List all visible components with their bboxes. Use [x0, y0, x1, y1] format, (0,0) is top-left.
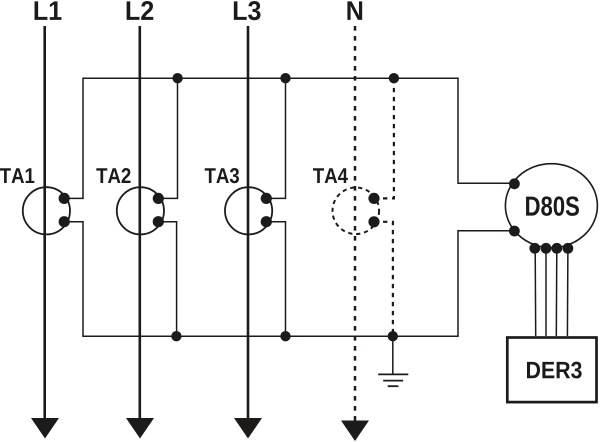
node TA4 upper terminal dot — [368, 193, 379, 204]
wire TA3 lower terminal to bottom bus — [266, 222, 285, 337]
node D80S upper input dot — [509, 178, 520, 189]
wire D80S output 1 to DER3 — [534, 248, 537, 336]
transformer TA1 — [23, 187, 70, 234]
node L1 label — [35, 1, 62, 20]
node N label — [347, 1, 362, 20]
wire L3 arrow head — [234, 418, 262, 439]
wire L1 phase line — [43, 26, 46, 421]
node junction dot top bus at TA3 — [280, 73, 290, 83]
wire N neutral dashed line — [354, 26, 357, 423]
node D80S output dot 4 — [563, 243, 574, 254]
wire D80S output 3 to DER3 — [555, 248, 558, 336]
wire ground stem — [392, 336, 394, 374]
transformer TA2 label — [96, 168, 130, 183]
relay DER3 box — [507, 338, 596, 403]
node TA2 upper terminal dot — [153, 193, 164, 204]
node D80S output dot 2 — [541, 243, 552, 254]
node TA2 lower terminal dot — [153, 216, 164, 227]
toroid D80S label — [526, 196, 579, 216]
wire D80S output 4 to DER3 — [566, 248, 569, 336]
wire L2 phase line — [139, 26, 142, 421]
node TA3 upper terminal dot — [261, 193, 272, 204]
node L2 label — [127, 1, 154, 20]
node D80S lower input dot — [509, 226, 520, 237]
wire L1 arrow head — [31, 418, 59, 439]
wire L3 phase line — [247, 26, 250, 421]
wire N arrow head — [341, 421, 369, 442]
node junction dot bottom bus at TA2 — [171, 331, 181, 341]
node TA1 lower terminal dot — [59, 216, 70, 227]
node junction dot top bus at TA2 — [172, 73, 182, 83]
node D80S output dot 3 — [551, 243, 562, 254]
node TA1 upper terminal dot — [59, 193, 70, 204]
transformer TA4 (dashed, optional) — [333, 188, 380, 235]
relay DER3 label — [527, 362, 582, 379]
wire TA2 upper terminal to top bus — [158, 78, 177, 198]
node TA3 lower terminal dot — [261, 216, 272, 227]
transformer TA3 label — [205, 168, 239, 183]
wire bottom bus from TA1 lower terminal to D80S lower terminal — [64, 222, 514, 337]
wire L2 arrow head — [126, 418, 154, 439]
node junction dot bottom bus at TA4 / ground — [388, 331, 398, 341]
transformer TA4 label — [313, 168, 348, 183]
wire TA3 upper terminal to top bus — [266, 78, 285, 198]
transformer TA1 label — [0, 168, 34, 183]
wire top bus from TA1 upper terminal to D80S upper terminal — [64, 78, 514, 198]
node TA4 lower terminal dot — [368, 216, 379, 227]
node D80S output dot 1 — [529, 243, 540, 254]
wire TA4 lower terminal to bottom bus (dashed) — [374, 222, 393, 336]
wire D80S output 2 to DER3 — [545, 248, 547, 336]
node junction dot bottom bus at TA3 — [280, 331, 290, 341]
transformer TA2 — [117, 187, 164, 234]
wire TA4 upper terminal to top bus (dashed) — [374, 78, 394, 198]
toroid D80S — [505, 164, 597, 248]
node junction dot top bus at TA4 — [389, 73, 399, 83]
transformer TA3 — [225, 187, 272, 234]
node L3 label — [234, 1, 261, 20]
wire TA2 lower terminal to bottom bus — [158, 222, 176, 337]
ground — [378, 374, 408, 386]
